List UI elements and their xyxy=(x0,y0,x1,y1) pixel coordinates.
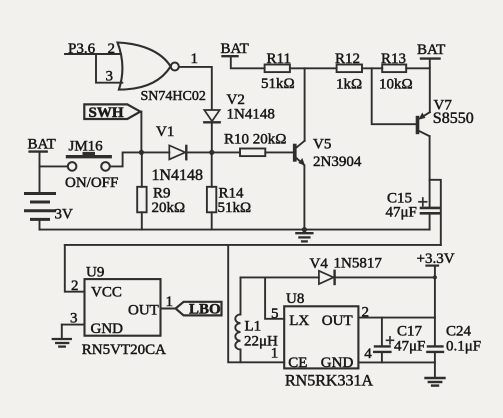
svg-text:C24: C24 xyxy=(446,324,472,340)
svg-text:2N3904: 2N3904 xyxy=(313,154,362,170)
svg-text:1kΩ: 1kΩ xyxy=(336,77,362,93)
svg-text:SN74HC02: SN74HC02 xyxy=(141,89,206,104)
svg-text:LX: LX xyxy=(289,313,309,329)
svg-text:10kΩ: 10kΩ xyxy=(379,77,413,93)
svg-text:L1: L1 xyxy=(245,319,262,335)
svg-text:47μF: 47μF xyxy=(394,339,425,355)
svg-text:GND: GND xyxy=(321,355,354,371)
svg-text:2: 2 xyxy=(362,305,370,321)
svg-text:BAT: BAT xyxy=(28,137,56,153)
svg-text:OUT: OUT xyxy=(128,302,159,318)
svg-text:1N4148: 1N4148 xyxy=(152,167,204,184)
svg-text:RN5VT20CA: RN5VT20CA xyxy=(82,342,166,358)
svg-text:51kΩ: 51kΩ xyxy=(261,76,295,92)
svg-text:VCC: VCC xyxy=(91,285,122,301)
svg-text:2: 2 xyxy=(108,41,116,57)
svg-text:LBO: LBO xyxy=(189,302,221,318)
svg-text:51kΩ: 51kΩ xyxy=(218,200,252,216)
svg-text:OUT: OUT xyxy=(322,313,353,329)
svg-text:P3.6: P3.6 xyxy=(68,41,96,57)
svg-text:20kΩ: 20kΩ xyxy=(152,200,186,216)
svg-text:R10 20kΩ: R10 20kΩ xyxy=(224,132,286,148)
svg-text:RN5RK331A: RN5RK331A xyxy=(285,373,373,390)
svg-text:R11: R11 xyxy=(267,51,291,67)
svg-text:1: 1 xyxy=(191,51,199,67)
svg-text:47μF: 47μF xyxy=(386,205,417,221)
svg-text:1N4148: 1N4148 xyxy=(227,107,275,123)
svg-text:3: 3 xyxy=(106,69,114,85)
svg-text:U9: U9 xyxy=(86,264,104,280)
svg-text:5: 5 xyxy=(271,306,279,322)
svg-text:V4: V4 xyxy=(310,256,329,272)
svg-text:22μH: 22μH xyxy=(244,334,278,350)
svg-text:S8550: S8550 xyxy=(433,110,474,127)
svg-text:3V: 3V xyxy=(55,207,74,223)
svg-text:BAT: BAT xyxy=(221,41,249,57)
svg-text:JM16: JM16 xyxy=(69,139,104,155)
svg-text:CE: CE xyxy=(288,355,307,371)
svg-text:2: 2 xyxy=(71,278,79,294)
svg-text:V1: V1 xyxy=(156,124,174,140)
svg-text:0.1μF: 0.1μF xyxy=(446,339,481,355)
svg-text:3: 3 xyxy=(70,311,78,327)
svg-text:GND: GND xyxy=(91,321,124,337)
svg-text:+3.3V: +3.3V xyxy=(417,251,455,267)
svg-text:ON/OFF: ON/OFF xyxy=(65,175,118,191)
svg-text:U8: U8 xyxy=(286,291,304,307)
svg-text:C17: C17 xyxy=(397,324,423,340)
svg-text:1: 1 xyxy=(166,294,174,310)
svg-text:R12: R12 xyxy=(335,51,360,67)
svg-text:V5: V5 xyxy=(313,137,331,153)
svg-text:1N5817: 1N5817 xyxy=(334,256,383,272)
svg-text:4: 4 xyxy=(364,346,372,362)
svg-text:BAT: BAT xyxy=(417,42,445,58)
svg-text:R13: R13 xyxy=(381,51,406,67)
svg-text:SWH: SWH xyxy=(89,105,124,121)
